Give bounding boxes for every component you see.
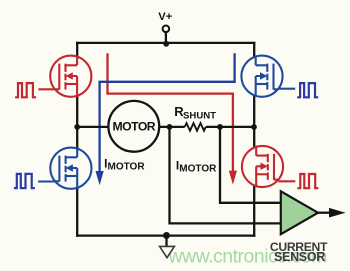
black wiring xyxy=(76,32,281,246)
sensor output arrowhead xyxy=(329,208,346,218)
node: shunt left junction dot xyxy=(167,124,173,130)
node: ground junction dot xyxy=(163,232,170,239)
wire: V+ stub xyxy=(165,32,167,42)
transistor Q2 top-right (blue N-MOSFET, mirrored) xyxy=(241,56,282,97)
wire: right edge xyxy=(253,42,255,237)
wire: top rail V+ xyxy=(76,42,255,44)
PWM source square wave (Q3 gate, blue) xyxy=(14,174,35,188)
svg-text:V+: V+ xyxy=(158,11,172,23)
ground symbol xyxy=(160,246,175,257)
transistor Q1 top-left (red N-MOSFET) xyxy=(50,56,91,97)
node: V+ junction dot xyxy=(163,41,169,47)
wire: gate lead Q4 xyxy=(278,180,295,182)
red current path I1 (V+ through left high-side to bottom-right) xyxy=(108,53,233,171)
wire: sensor output xyxy=(318,212,330,214)
V+ terminal circle xyxy=(163,26,170,33)
PWM source square wave (Q2 gate, blue) xyxy=(297,83,318,97)
wire: motor rail left xyxy=(77,126,185,128)
resistor R_SHUNT zigzag xyxy=(185,123,206,131)
node: shunt right junction dot xyxy=(217,124,223,130)
PWM source square wave (Q1 gate, red) xyxy=(15,83,36,97)
wire: sense line from right shunt node to sensor + input xyxy=(220,127,281,203)
transistor Q4 bottom-right (red N-MOSFET, mirrored) xyxy=(242,146,283,187)
motor M1 xyxy=(108,101,159,152)
node: right edge junction dot xyxy=(251,124,257,130)
wire: gate lead Q1 xyxy=(38,88,55,90)
blue current path I2 (V+ through right high-side to bottom-left) xyxy=(100,53,235,171)
wire: bottom rail xyxy=(76,234,255,236)
op-amp U1 current sensor triangle xyxy=(281,191,318,234)
wire: ground stub xyxy=(165,236,167,247)
wire: gate lead Q3 xyxy=(38,180,55,182)
PWM source square wave (Q4 gate, red) xyxy=(297,174,318,188)
svg-text:MOTOR: MOTOR xyxy=(179,164,217,175)
transistor Q3 bottom-left (blue N-MOSFET) xyxy=(50,148,91,189)
svg-text:MOTOR: MOTOR xyxy=(108,161,146,172)
svg-text:MOTOR: MOTOR xyxy=(112,119,155,133)
svg-text:SHUNT: SHUNT xyxy=(183,111,216,122)
red current path arrowhead xyxy=(229,171,237,185)
blue current path arrowhead xyxy=(96,171,104,185)
node: motor left junction dot xyxy=(74,124,80,130)
wire: gate lead Q2 xyxy=(278,88,295,90)
wire: left edge xyxy=(76,42,78,237)
wire: sense line from left shunt node to sensor - input xyxy=(170,127,282,223)
wire: motor rail right of shunt xyxy=(206,126,254,128)
svg-text:SENSOR: SENSOR xyxy=(274,250,325,264)
